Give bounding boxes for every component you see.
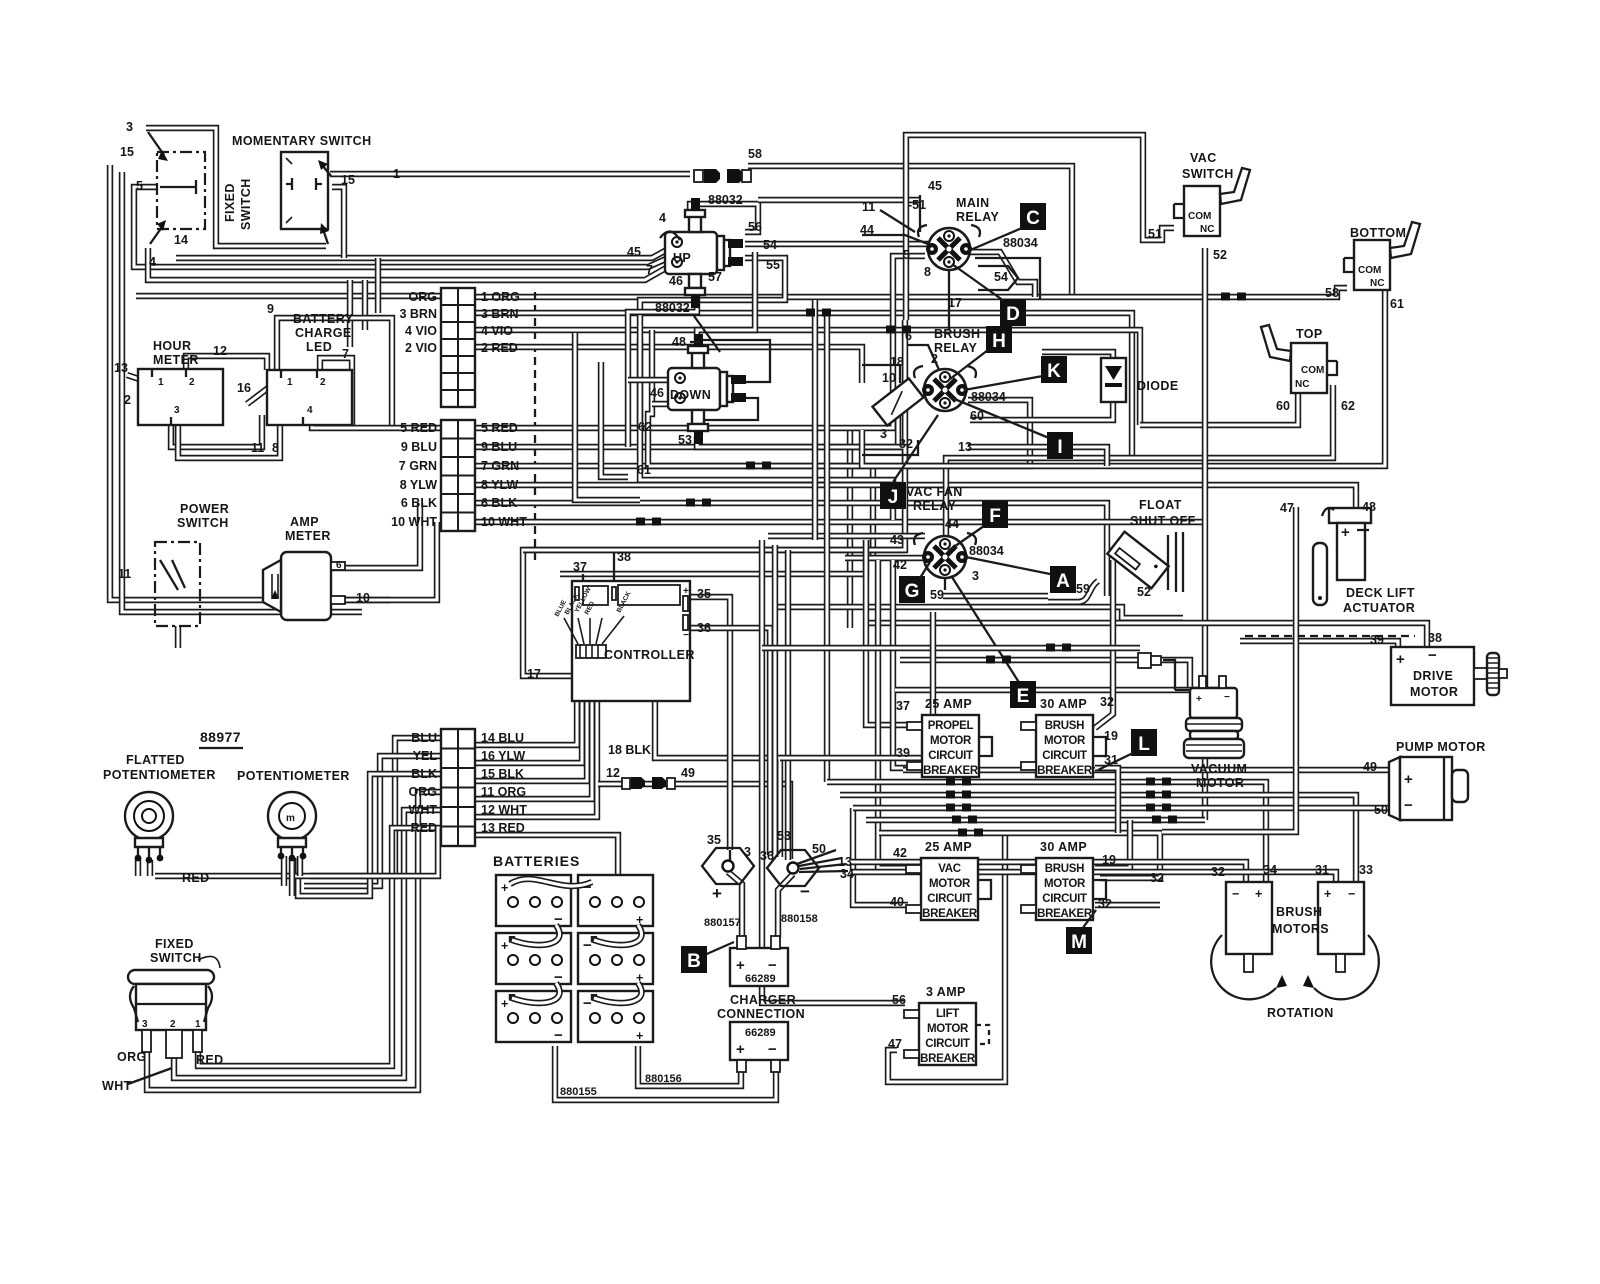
wire flatted pot lead 2 <box>147 860 153 876</box>
row p782 <box>827 782 1266 882</box>
svg-text:2: 2 <box>931 352 938 366</box>
svg-text:+: + <box>1255 887 1262 901</box>
junction fan b <box>799 858 842 866</box>
wire 40 breaker <box>853 808 908 905</box>
svg-text:53: 53 <box>678 433 692 447</box>
svg-text:38: 38 <box>617 550 631 564</box>
svg-text:42: 42 <box>893 558 907 572</box>
svg-text:59: 59 <box>1076 582 1090 596</box>
svg-text:32: 32 <box>1098 897 1112 911</box>
svg-text:10 WHT: 10 WHT <box>481 515 527 529</box>
svg-text:3: 3 <box>126 120 133 134</box>
wire 4 VIO long run <box>476 330 1140 425</box>
svg-text:1: 1 <box>195 1019 201 1030</box>
vertical bundle 3 <box>785 550 791 860</box>
svg-text:WHT: WHT <box>409 803 438 817</box>
wire 12 WHT row <box>476 662 597 817</box>
junction hexagon 2 (-) <box>767 850 819 886</box>
callout letter box A <box>1050 566 1076 593</box>
wire 62 top switch <box>946 385 1333 536</box>
wire left loop inner <box>122 172 362 612</box>
svg-text:FLATTED: FLATTED <box>126 753 185 767</box>
svg-text:I: I <box>1057 437 1062 458</box>
wire VIO riser <box>362 280 368 330</box>
svg-text:15: 15 <box>341 173 355 187</box>
deck lift actuator <box>1313 508 1371 605</box>
wire down outer loop <box>575 333 640 500</box>
svg-text:14: 14 <box>174 233 188 247</box>
svg-text:K: K <box>1047 361 1061 382</box>
wire 61 loop <box>640 338 893 520</box>
junction hexagon 1 (+) <box>702 848 754 884</box>
svg-text:88032: 88032 <box>708 193 743 207</box>
svg-text:48: 48 <box>672 335 686 349</box>
battery 4 <box>578 933 653 985</box>
wire 5 from fixed switch <box>134 187 668 267</box>
svg-text:2: 2 <box>189 377 195 388</box>
svg-text:1: 1 <box>393 167 400 181</box>
rocker fixed switch <box>128 970 214 1058</box>
junction fan c <box>800 864 846 869</box>
svg-text:DECK LIFT: DECK LIFT <box>1346 586 1415 600</box>
svg-text:4: 4 <box>307 405 313 416</box>
svg-text:C: C <box>1026 208 1040 229</box>
wire M 32 <box>1095 902 1160 908</box>
svg-text:42: 42 <box>893 846 907 860</box>
svg-text:CIRCUIT: CIRCUIT <box>1042 750 1087 762</box>
svg-text:CONNECTION: CONNECTION <box>717 1007 805 1021</box>
lift motor circuit breaker (3 AMP) <box>904 985 989 1065</box>
svg-text:32: 32 <box>1150 871 1164 885</box>
callout letter box K <box>1041 356 1067 383</box>
svg-text:62: 62 <box>1341 399 1355 413</box>
svg-text:66289: 66289 <box>745 973 776 985</box>
svg-text:1: 1 <box>158 377 164 388</box>
svg-text:47: 47 <box>888 1037 902 1051</box>
row p795 <box>840 795 1356 882</box>
svg-text:−: − <box>1348 887 1355 901</box>
wire 3 BRN long run <box>476 313 1132 458</box>
svg-text:88032: 88032 <box>655 301 690 315</box>
svg-text:1: 1 <box>287 377 293 388</box>
wire BRN riser <box>375 258 381 313</box>
svg-text:62: 62 <box>638 420 652 434</box>
svg-text:2 RED: 2 RED <box>481 341 518 355</box>
wire ORG row left ext <box>136 293 441 299</box>
svg-text:FIXED: FIXED <box>155 937 194 951</box>
svg-text:32: 32 <box>899 437 913 451</box>
svg-text:36: 36 <box>697 621 711 635</box>
wire 45 vertical <box>919 195 921 232</box>
svg-text:−: − <box>683 630 689 641</box>
svg-text:49: 49 <box>681 766 695 780</box>
terminal connector block 2 <box>441 420 475 531</box>
svg-text:-51: -51 <box>908 198 926 212</box>
svg-text:BATTERY: BATTERY <box>293 312 354 326</box>
svg-text:38: 38 <box>1428 631 1442 645</box>
svg-text:2 VIO: 2 VIO <box>405 341 437 355</box>
svg-text:F: F <box>989 506 1001 527</box>
svg-text:−: − <box>1224 692 1230 703</box>
svg-text:52: 52 <box>1137 585 1151 599</box>
dashed bundle boundary <box>534 292 536 560</box>
wire 47 long vertical <box>1162 507 1296 832</box>
wire 52 vac switch <box>1202 248 1208 820</box>
wire 9 from LED up <box>277 318 392 428</box>
wire 15 BLK row <box>476 662 587 781</box>
wire pot lead down 2 <box>289 858 295 896</box>
wire 58 after connector <box>748 166 1072 297</box>
svg-text:32: 32 <box>1100 695 1114 709</box>
svg-text:4 VIO: 4 VIO <box>405 324 437 338</box>
battery 1 <box>496 875 571 928</box>
svg-text:16 YLW: 16 YLW <box>481 749 525 763</box>
svg-text:D: D <box>1006 304 1020 325</box>
svg-text:BREAKER: BREAKER <box>920 1053 976 1065</box>
row 18blk ext <box>780 755 930 761</box>
svg-text:CIRCUIT: CIRCUIT <box>1042 893 1087 905</box>
wire diode bottom link <box>970 398 1113 420</box>
svg-text:16: 16 <box>237 381 251 395</box>
solenoid UP (88032) <box>665 198 743 308</box>
svg-text:METER: METER <box>285 529 331 543</box>
svg-text:BOTTOM: BOTTOM <box>1350 226 1406 240</box>
svg-text:5 RED: 5 RED <box>481 421 518 435</box>
svg-text:43: 43 <box>890 533 904 547</box>
svg-text:3: 3 <box>880 427 887 441</box>
svg-text:NC: NC <box>1295 379 1309 390</box>
svg-text:88034: 88034 <box>1003 236 1038 250</box>
wire 2 VIO riser <box>347 280 353 347</box>
svg-text:PROPEL: PROPEL <box>928 720 974 732</box>
svg-text:−: − <box>583 995 592 1012</box>
wire 54 from up <box>745 238 940 244</box>
row 49 pump <box>903 767 1390 773</box>
wire 56 up solenoid <box>690 204 758 232</box>
wire 16 to LED <box>247 388 268 404</box>
svg-text:880155: 880155 <box>560 1086 597 1098</box>
wire deck row <box>868 623 1427 648</box>
wire 880155 <box>555 1046 776 1100</box>
svg-text:8 YLW: 8 YLW <box>400 478 437 492</box>
svg-text:SWITCH: SWITCH <box>150 951 202 965</box>
svg-text:18: 18 <box>890 355 904 369</box>
wire 7 GRN row <box>476 400 1030 466</box>
wire 13 run <box>968 447 1107 466</box>
wire power switch bottom <box>175 626 181 648</box>
svg-text:MOTOR: MOTOR <box>927 1023 969 1035</box>
svg-text:NC: NC <box>1370 278 1384 289</box>
svg-text:B: B <box>687 951 701 972</box>
svg-text:8: 8 <box>924 265 931 279</box>
svg-text:VACUUM: VACUUM <box>1191 762 1247 776</box>
wire pot lead down 1 <box>281 856 287 886</box>
junction 2 out <box>778 874 793 938</box>
svg-text:7 GRN: 7 GRN <box>399 459 437 473</box>
svg-text:AMP: AMP <box>290 515 319 529</box>
wire 56 to relay <box>758 197 920 203</box>
svg-text:57: 57 <box>708 270 722 284</box>
terminal connector block 3 <box>441 729 475 846</box>
svg-text:44: 44 <box>945 517 959 531</box>
svg-text:8 YLW: 8 YLW <box>481 478 518 492</box>
battery 2 <box>578 875 653 927</box>
svg-text:RED: RED <box>196 1053 224 1067</box>
svg-text:4 VIO: 4 VIO <box>481 324 513 338</box>
svg-text:7: 7 <box>342 347 349 361</box>
svg-text:L: L <box>1138 734 1150 755</box>
svg-text:BLK: BLK <box>411 767 437 781</box>
svg-text:MAIN: MAIN <box>956 196 990 210</box>
svg-text:NC: NC <box>1200 224 1214 235</box>
svg-text:MOMENTARY SWITCH: MOMENTARY SWITCH <box>232 134 372 148</box>
brush motors <box>1226 882 1272 972</box>
wire 5 RED row <box>476 256 925 428</box>
wire 44 to main relay <box>862 235 928 244</box>
wire 5 RED left ext <box>312 412 441 428</box>
wire vacfan G stub <box>944 570 946 590</box>
row p820 <box>866 817 1205 823</box>
svg-text:17: 17 <box>948 296 962 310</box>
svg-text:LED: LED <box>306 340 332 354</box>
svg-text:60: 60 <box>970 409 984 423</box>
svg-text:17: 17 <box>527 667 541 681</box>
svg-text:SWITCH: SWITCH <box>239 178 253 230</box>
svg-text:12: 12 <box>606 766 620 780</box>
brush motor circuit breaker 2 (30 AMP) <box>1021 840 1106 920</box>
vertical center b <box>870 466 876 560</box>
svg-text:60: 60 <box>1276 399 1290 413</box>
wire 42 breaker <box>878 560 908 868</box>
svg-text:39: 39 <box>1370 633 1384 647</box>
svg-text:CIRCUIT: CIRCUIT <box>925 1038 970 1050</box>
svg-text:12 WHT: 12 WHT <box>481 803 527 817</box>
svg-text:VAC FAN: VAC FAN <box>906 485 963 499</box>
svg-text:SWITCH: SWITCH <box>177 516 229 530</box>
svg-text:13 RED: 13 RED <box>481 821 525 835</box>
svg-text:3 AMP: 3 AMP <box>926 985 966 999</box>
junction fan d <box>799 871 848 872</box>
svg-text:46: 46 <box>650 386 664 400</box>
svg-text:+: + <box>736 957 745 974</box>
svg-text:88034: 88034 <box>969 544 1004 558</box>
svg-text:UP: UP <box>673 251 691 265</box>
svg-text:4: 4 <box>149 255 156 269</box>
svg-text:BREAKER: BREAKER <box>1037 765 1093 777</box>
svg-text:14 BLU: 14 BLU <box>481 731 524 745</box>
callout letter box D <box>1000 299 1026 326</box>
relay main relay (88034) <box>918 225 980 270</box>
svg-text:VAC: VAC <box>1190 151 1217 165</box>
svg-text:3 BRN: 3 BRN <box>481 307 519 321</box>
svg-text:−: − <box>583 937 592 954</box>
wire 31 right brush motor <box>850 872 1336 882</box>
svg-text:2: 2 <box>124 393 131 407</box>
svg-text:+: + <box>501 997 508 1011</box>
svg-text:A: A <box>1056 571 1070 592</box>
svg-text:CHARGER: CHARGER <box>730 993 796 1007</box>
row 41b <box>1160 660 1190 688</box>
svg-text:3: 3 <box>142 1019 148 1030</box>
wire 32 brush relay <box>862 440 918 455</box>
svg-text:19: 19 <box>1102 853 1116 867</box>
svg-text:4: 4 <box>659 211 666 225</box>
svg-text:−: − <box>1232 887 1239 901</box>
svg-text:POTENTIOMETER: POTENTIOMETER <box>237 769 350 783</box>
wire 7 from LED <box>320 358 352 428</box>
svg-text:−: − <box>768 1041 777 1058</box>
svg-text:10 WHT: 10 WHT <box>391 515 437 529</box>
wire 42 <box>845 555 923 561</box>
svg-text:FLOAT: FLOAT <box>1139 498 1182 512</box>
svg-text:50: 50 <box>1374 803 1388 817</box>
wire 53 from down solenoid <box>697 436 905 470</box>
wire 9 BLU row <box>476 404 898 447</box>
svg-text:3: 3 <box>744 845 751 859</box>
inline connector pair wire 58 <box>694 169 751 183</box>
callout letter box G <box>899 576 925 603</box>
wire 46 down pin a <box>628 377 676 383</box>
svg-text:6 BLK: 6 BLK <box>481 496 517 510</box>
label FIXED SWITCH vertical <box>223 178 253 230</box>
wire 12-49 run <box>598 784 790 859</box>
svg-text:6: 6 <box>336 560 342 571</box>
svg-text:5: 5 <box>903 248 910 262</box>
wire down right studs <box>700 340 770 382</box>
svg-text:HOUR: HOUR <box>153 339 191 353</box>
svg-text:RELAY: RELAY <box>934 341 977 355</box>
svg-text:RELAY: RELAY <box>913 499 956 513</box>
wire 18 brush <box>862 365 900 383</box>
svg-text:CHARGE: CHARGE <box>295 326 352 340</box>
svg-text:45: 45 <box>627 245 641 259</box>
svg-text:−: − <box>554 1027 563 1044</box>
wire flatted pot lead 1 <box>135 858 141 876</box>
tilted switch symbol left of brush relay <box>872 378 923 425</box>
svg-text:31: 31 <box>1315 863 1329 877</box>
wire 2 RED run <box>476 347 862 383</box>
svg-text:47: 47 <box>1280 501 1294 515</box>
svg-text:METER: METER <box>153 353 199 367</box>
svg-text:34: 34 <box>840 867 854 881</box>
svg-text:BRUSH: BRUSH <box>1045 720 1084 732</box>
vertical 933 <box>930 612 936 770</box>
svg-text:33: 33 <box>1359 863 1373 877</box>
wire 61 bottom switch <box>862 290 1385 466</box>
svg-text:TOP: TOP <box>1296 327 1323 341</box>
svg-text:COM: COM <box>1188 211 1211 222</box>
svg-text:WHT: WHT <box>102 1079 132 1093</box>
svg-text:M: M <box>1071 932 1087 953</box>
wire 19 brush breaker 2 <box>1095 820 1130 868</box>
battery 3 <box>496 933 571 986</box>
battery 6 <box>578 991 653 1043</box>
wire 10 amp meter <box>332 522 437 600</box>
svg-text:50: 50 <box>812 842 826 856</box>
vertical bundle 2 <box>772 545 778 855</box>
svg-text:2: 2 <box>170 1019 176 1030</box>
svg-text:PUMP MOTOR: PUMP MOTOR <box>1396 740 1486 754</box>
wire RED from flatted pot <box>155 828 438 876</box>
svg-text:7 GRN: 7 GRN <box>481 459 519 473</box>
row 648 <box>762 645 1140 651</box>
svg-text:53: 53 <box>777 829 791 843</box>
svg-text:MOTOR: MOTOR <box>1196 776 1244 790</box>
svg-text:3 BRN: 3 BRN <box>399 307 437 321</box>
svg-text:YEL: YEL <box>413 749 438 763</box>
svg-text:19: 19 <box>1104 729 1118 743</box>
wire BLU row left <box>310 738 441 876</box>
svg-text:40: 40 <box>890 895 904 909</box>
svg-text:BREAKER: BREAKER <box>923 765 979 777</box>
wire ORG row left <box>147 792 441 1090</box>
vacuum motor <box>1138 653 1244 758</box>
svg-text:DIODE: DIODE <box>1137 379 1179 393</box>
svg-text:25 AMP: 25 AMP <box>925 697 972 711</box>
svg-text:10: 10 <box>356 591 370 605</box>
svg-text:MOTOR: MOTOR <box>929 878 971 890</box>
svg-text:−: − <box>800 882 810 901</box>
svg-text:30 AMP: 30 AMP <box>1040 840 1087 854</box>
wire pot lead down 3 <box>297 856 303 876</box>
svg-text:61: 61 <box>1390 297 1404 311</box>
wire 3-15 outer left loop <box>110 165 390 600</box>
svg-text:11: 11 <box>118 567 131 581</box>
svg-text:−: − <box>1404 797 1413 814</box>
wire 55 from up <box>640 258 785 428</box>
svg-text:+: + <box>736 1041 745 1058</box>
wire 8 YLW row / 48 <box>476 485 1356 517</box>
svg-text:5: 5 <box>136 179 143 193</box>
callout letter box E <box>1010 681 1036 708</box>
junction fan a <box>797 850 836 864</box>
wire 880156 <box>638 1046 741 1086</box>
svg-text:BREAKER: BREAKER <box>922 908 978 920</box>
svg-text:FIXED: FIXED <box>223 183 237 222</box>
wire 62 loop around down <box>648 330 860 466</box>
svg-text:BATTERIES: BATTERIES <box>493 853 580 869</box>
wire 51 big loop <box>906 135 1174 320</box>
svg-text:+: + <box>1341 524 1350 541</box>
wire WHT row left <box>174 810 441 1078</box>
wire 2 hour meter bottom <box>171 415 262 447</box>
wire 37 top <box>560 540 866 574</box>
wire 11 diagonal <box>880 210 915 232</box>
svg-text:+: + <box>1196 694 1202 705</box>
svg-text:2: 2 <box>320 377 326 388</box>
wire 56 breaker <box>762 930 905 1003</box>
svg-text:BRUSH: BRUSH <box>1276 905 1322 919</box>
wire 6 brush relay <box>908 345 940 372</box>
svg-text:9 BLU: 9 BLU <box>401 440 437 454</box>
svg-text:52: 52 <box>1213 248 1227 262</box>
wire down stud 2 <box>700 398 758 420</box>
svg-text:MOTOR: MOTOR <box>1410 685 1458 699</box>
svg-text:61: 61 <box>637 463 651 477</box>
svg-text:RELAY: RELAY <box>956 210 999 224</box>
svg-text:MOTORS: MOTORS <box>1272 922 1329 936</box>
callout letter box H <box>986 326 1012 353</box>
inline connector ticks on long runs <box>946 778 971 786</box>
svg-text:+: + <box>1324 887 1331 901</box>
svg-text:VAC: VAC <box>938 863 961 875</box>
wire 11-8 row <box>178 415 280 458</box>
svg-text:MOTOR: MOTOR <box>1044 735 1086 747</box>
wire diode top link <box>1042 352 1113 366</box>
vertical bundle 4 <box>812 300 818 540</box>
svg-text:25 AMP: 25 AMP <box>925 840 972 854</box>
wire 13 to hour meter <box>127 375 148 382</box>
